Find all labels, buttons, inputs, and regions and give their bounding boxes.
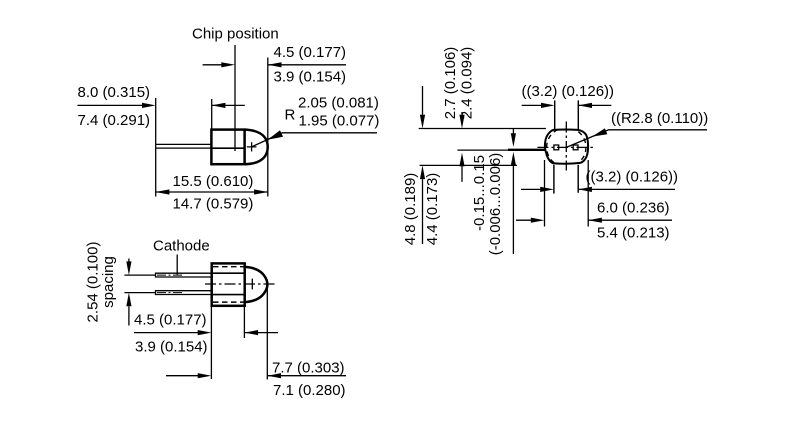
package outline (front view) — [545, 130, 588, 164]
arrowhead of R2.8 leader — [592, 128, 607, 136]
svg-text:1.95 (0.077): 1.95 (0.077) — [299, 113, 380, 130]
left lead pad — [554, 145, 559, 150]
lead (side view) — [156, 144, 212, 148]
hidden edge upper (dashed) — [213, 266, 245, 268]
svg-text:3.9 (0.154): 3.9 (0.154) — [135, 339, 208, 356]
extension line body left edge — [211, 99, 213, 130]
extension line package left (down) — [544, 160, 546, 227]
svg-text:2.05 (0.081): 2.05 (0.081) — [298, 95, 379, 112]
extension line dome tip — [267, 58, 269, 197]
hidden edge lower (dashed) — [213, 301, 245, 303]
svg-text:((R2.8 (0.110)): ((R2.8 (0.110)) — [611, 110, 708, 127]
arrowhead of R leader — [268, 130, 283, 140]
LED body (bottom view) — [212, 263, 245, 305]
svg-text:spacing: spacing — [100, 256, 117, 308]
dimension -0.15...0.15 vertical line — [512, 129, 514, 134]
vertical centerline (dash-dot) — [565, 122, 567, 171]
lower lead outline — [156, 291, 212, 295]
extension line bottom edge — [420, 164, 517, 166]
lead lower edge through body — [211, 147, 244, 149]
dimension (3.2) top line — [522, 104, 543, 106]
dimension 15.5/14.7 line — [156, 191, 268, 193]
lead lower edge through body — [212, 294, 245, 296]
svg-text:4.8 (0.189): 4.8 (0.189) — [402, 173, 419, 246]
extension line dome tip (down) — [266, 288, 268, 380]
dimension 6.0/5.4 line — [516, 219, 533, 221]
dimension 4.5/3.9 line (chip to dome tip) — [203, 64, 223, 66]
leader line R2.8 — [566, 130, 707, 148]
svg-text:4.5 (0.177): 4.5 (0.177) — [274, 44, 347, 61]
upper lead centerline — [157, 274, 183, 276]
svg-text:3.9 (0.154): 3.9 (0.154) — [274, 69, 347, 86]
center line (dash-dot) — [205, 283, 276, 285]
lead extension line (into left pad) — [457, 149, 510, 151]
upper lead outline — [156, 273, 212, 277]
lead pad extension ticks (down) — [553, 165, 555, 194]
dome center cross — [247, 142, 257, 151]
extension line body left edge (down) — [210, 306, 212, 379]
cathode leader line — [176, 255, 178, 275]
hidden dome circle R2.8 (dashed) — [547, 128, 586, 167]
svg-text:2.54 (0.100): 2.54 (0.100) — [85, 242, 102, 323]
svg-text:7.7 (0.303): 7.7 (0.303) — [272, 359, 345, 376]
LED dome (side view) — [245, 130, 268, 165]
svg-text:15.5 (0.610): 15.5 (0.610) — [173, 173, 254, 190]
svg-text:2.7 (0.106): 2.7 (0.106) — [442, 47, 459, 120]
extension line body right edge (down) — [243, 306, 245, 338]
dimension 2.7/2.4 vertical line — [461, 112, 463, 116]
svg-text:4.5 (0.177): 4.5 (0.177) — [134, 312, 207, 329]
lower lead extension line — [124, 292, 155, 294]
svg-text:4.4 (0.173): 4.4 (0.173) — [424, 173, 441, 246]
svg-text:8.0 (0.315): 8.0 (0.315) — [78, 84, 151, 101]
svg-text:(-0.006...0.006): (-0.006...0.006) — [487, 153, 504, 256]
extension line top edge — [419, 128, 546, 130]
svg-text:((3.2) (0.126)): ((3.2) (0.126)) — [522, 83, 615, 100]
dimension 8.0/7.4 line — [78, 104, 144, 106]
lead upper edge through body — [212, 272, 245, 274]
svg-text:-0.15...0.15: -0.15...0.15 — [471, 155, 488, 231]
upper lead extension line — [124, 274, 155, 276]
lead pad extension ticks (up) — [554, 100, 556, 129]
svg-text:5.4 (0.213): 5.4 (0.213) — [597, 225, 670, 242]
LED dome (bottom view) — [245, 267, 268, 302]
svg-text:Chip position: Chip position — [192, 26, 279, 43]
dimension (3.2) bottom line — [521, 188, 542, 190]
center tick — [251, 279, 253, 290]
svg-text:7.1 (0.280): 7.1 (0.280) — [273, 382, 346, 399]
svg-text:R: R — [285, 106, 296, 123]
wire: chip position extension line — [234, 45, 236, 151]
LED body (side view) — [211, 130, 244, 165]
svg-text:14.7 (0.579): 14.7 (0.579) — [173, 196, 254, 213]
extension line package right (down) — [587, 160, 589, 227]
horizontal centerline (dash-dot) — [537, 146, 594, 148]
svg-text:((3.2) (0.126)): ((3.2) (0.126)) — [586, 169, 679, 186]
lower lead centerline — [157, 292, 183, 294]
right lead pad — [573, 145, 578, 150]
svg-text:2.4 (0.094): 2.4 (0.094) — [459, 47, 476, 120]
svg-text:Cathode: Cathode — [153, 238, 210, 255]
dimension 4.8/4.4 vertical line — [422, 86, 424, 116]
dimension 4.5/3.9 line — [134, 332, 199, 334]
extension line left (lead tip) — [155, 98, 157, 197]
svg-text:7.4 (0.291): 7.4 (0.291) — [78, 112, 151, 129]
leader line to R value — [252, 133, 377, 147]
svg-text:6.0 (0.236): 6.0 (0.236) — [597, 199, 670, 216]
dimension 7.7/7.1 line — [166, 375, 199, 377]
dimension 2.54 spacing vertical line — [128, 259, 130, 263]
